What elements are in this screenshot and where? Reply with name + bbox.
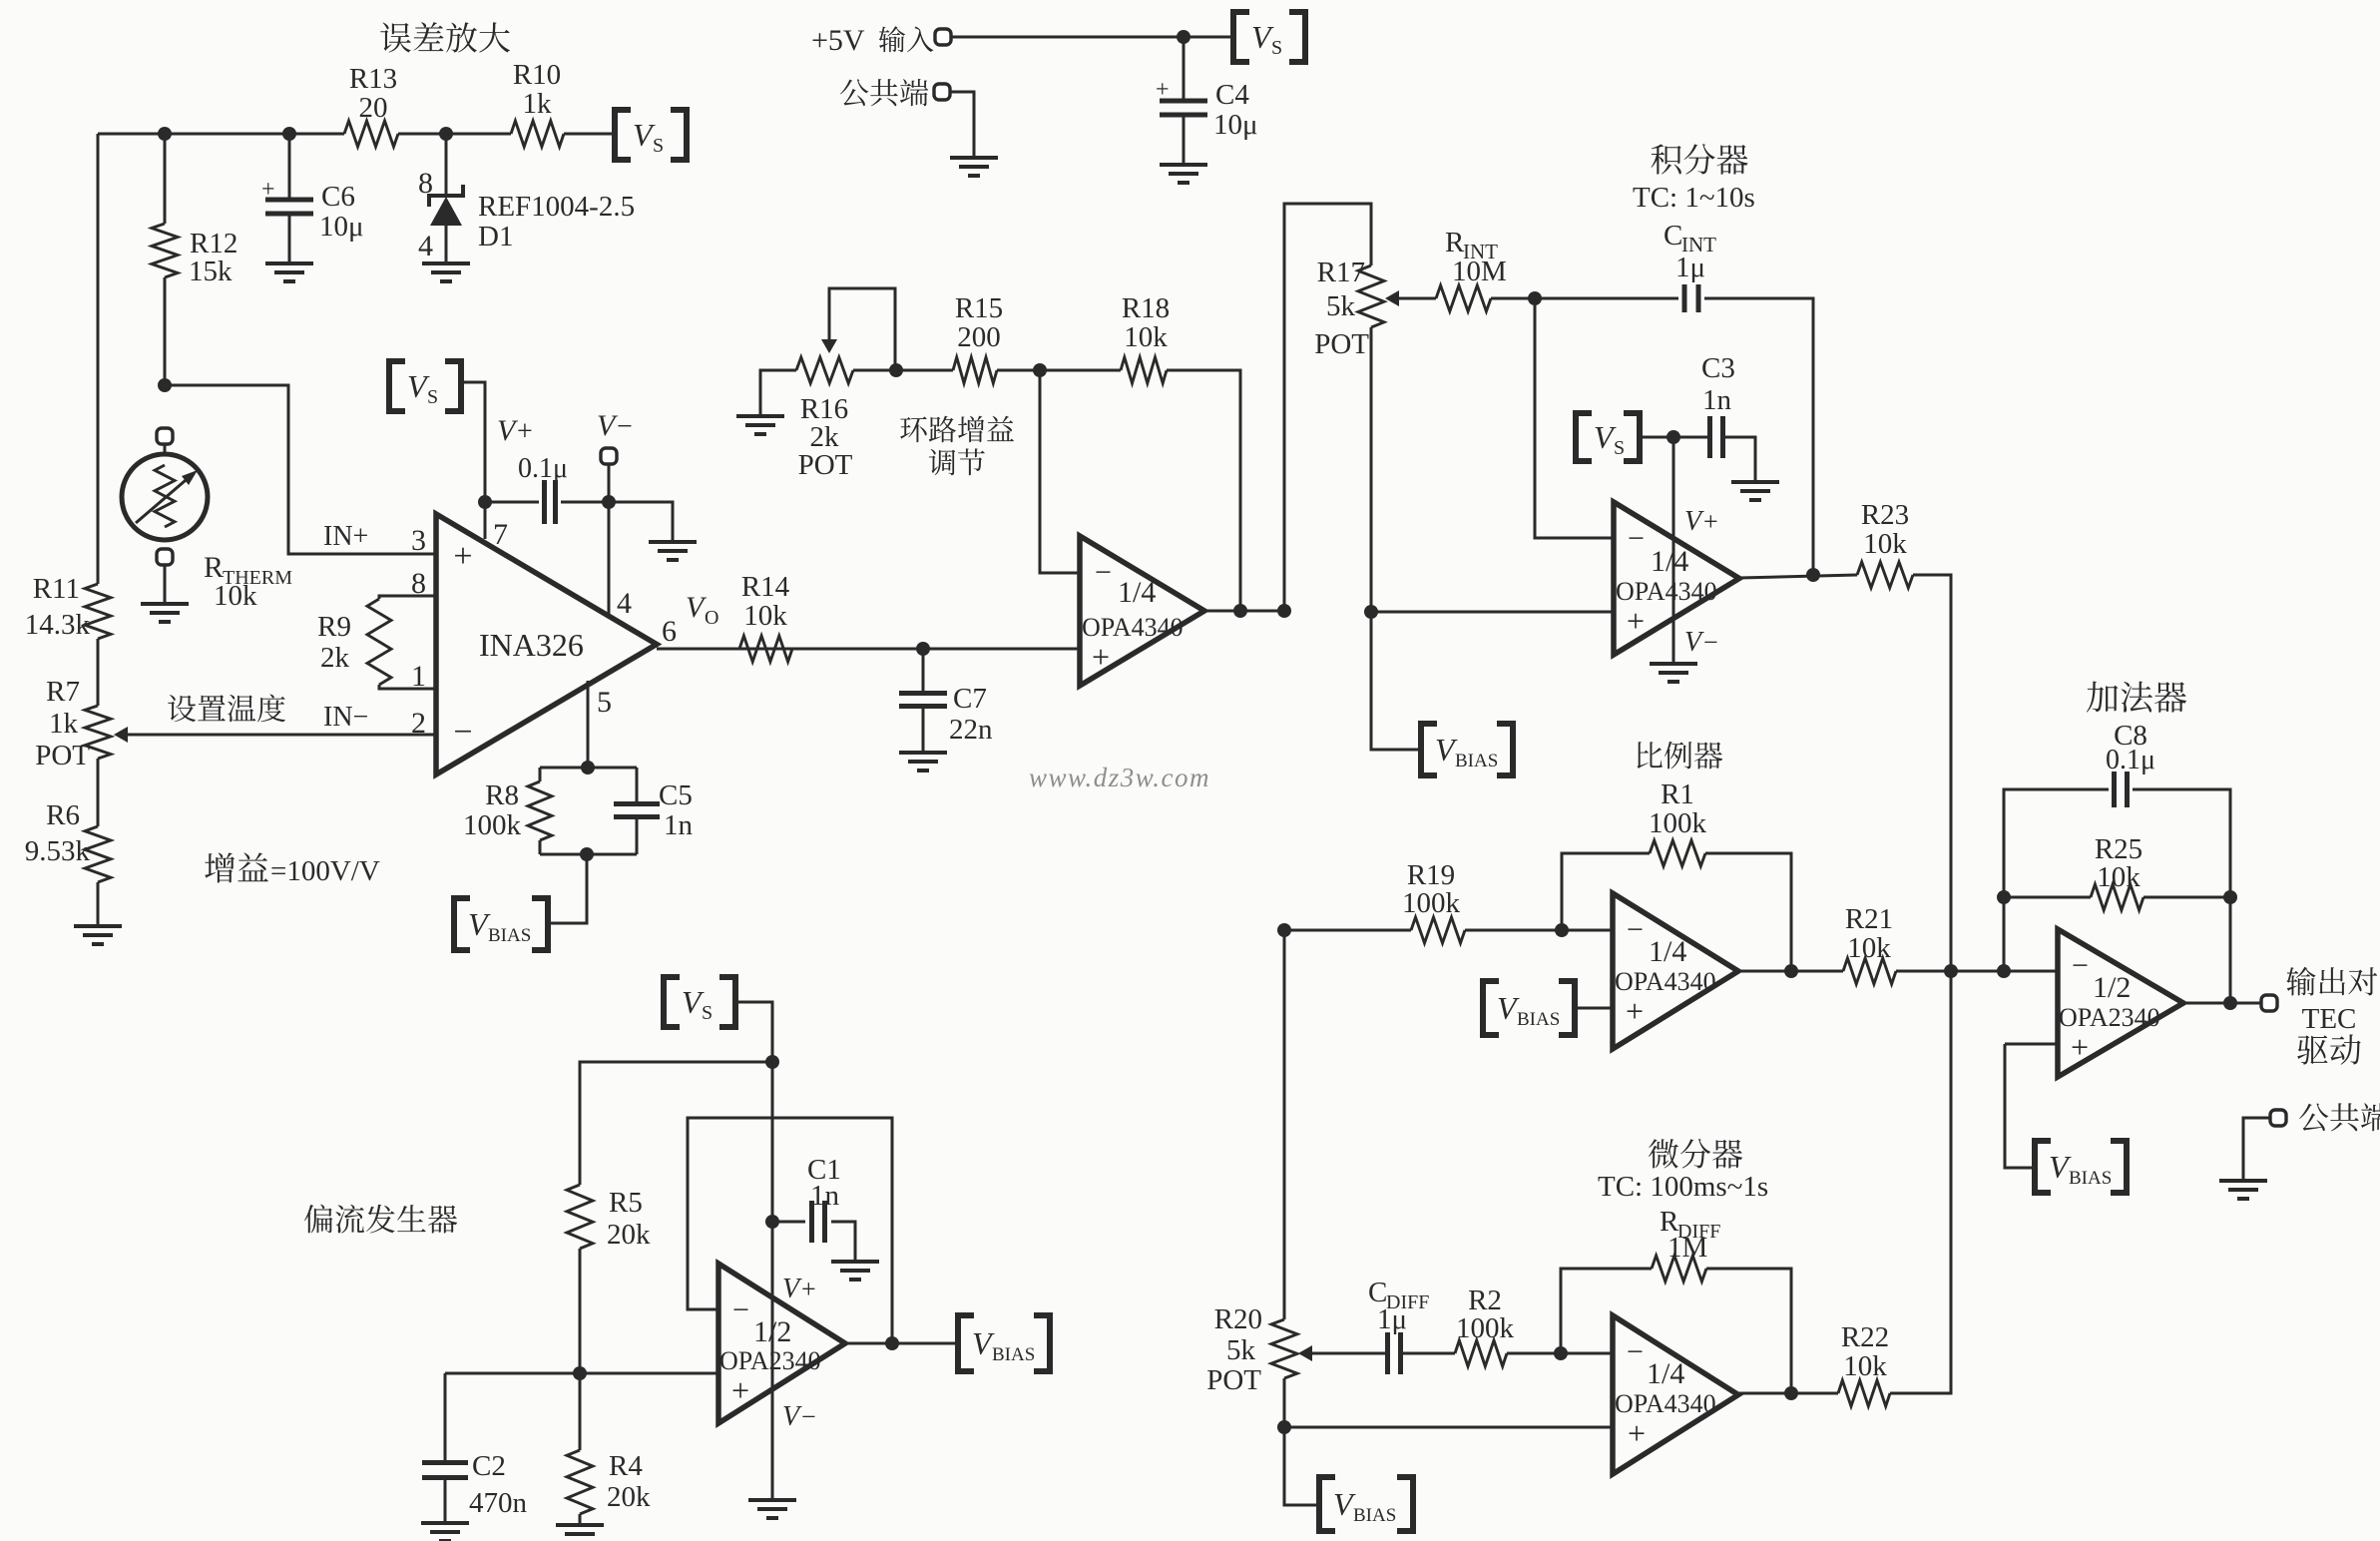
wire C6 to ground (288, 214, 291, 262)
labels U6 (719, 1293, 821, 1408)
junction summing feedback (1997, 964, 2011, 978)
wire R18 to output node (1167, 370, 1240, 611)
label R15 200 (955, 292, 1003, 353)
svg-text:R: R (1445, 227, 1465, 258)
junction CINT/output (1806, 568, 1820, 582)
svg-text:100k: 100k (1402, 887, 1461, 919)
wire C4 to ground (1183, 115, 1186, 164)
wire INA out to opamp (657, 648, 1080, 651)
svg-text:REF1004-2.5: REF1004-2.5 (478, 191, 635, 223)
resistor R12 (152, 224, 178, 277)
svg-text:1/4: 1/4 (1118, 576, 1156, 609)
svg-text:C5: C5 (659, 779, 693, 811)
wire 公共端 to ground (950, 92, 974, 157)
wire IN- pin2 (126, 734, 436, 737)
wire thermistor to ground (164, 565, 167, 603)
junction R15/R18 feedback (1033, 363, 1047, 377)
capacitor C3 (1710, 416, 1723, 458)
ground 公共端 top (950, 158, 998, 176)
svg-text:R23: R23 (1861, 499, 1909, 531)
resistor R13 (344, 121, 398, 147)
svg-text:3: 3 (411, 524, 426, 557)
ground below D1 (422, 263, 470, 281)
label TC 1-10s (1633, 182, 1755, 214)
wire C7 stem (922, 649, 925, 693)
svg-text:R10: R10 (513, 59, 561, 91)
wire RDIFF right side (1706, 1269, 1791, 1393)
label INA326 (479, 627, 584, 663)
ground below C2 (421, 1523, 469, 1541)
label pin 1 (411, 660, 426, 693)
terminal 公共端 top (934, 84, 950, 100)
svg-text:20: 20 (359, 92, 388, 124)
svg-text:100k: 100k (463, 809, 522, 841)
svg-text:+: + (2071, 1029, 2089, 1065)
wire U2 output (1739, 575, 1857, 578)
label + input INA (453, 538, 472, 575)
svg-text:BIAS: BIAS (1517, 1009, 1560, 1030)
junction R2/feedback (1554, 1346, 1568, 1360)
wire R25 row left (2004, 896, 2091, 899)
label 比例器 (proportional) (1638, 742, 1723, 770)
label R16 2k POT (798, 393, 853, 481)
wire to VBIAS (548, 854, 587, 923)
resistor R15 (953, 357, 997, 383)
svg-text:20k: 20k (607, 1219, 651, 1251)
resistor R8 (528, 768, 552, 854)
svg-text:−: − (1627, 913, 1644, 946)
ground C3 (1731, 482, 1779, 500)
wire V+ down through opamp (1672, 437, 1675, 663)
wire U3 output (1738, 970, 1843, 973)
wire plus input (1371, 611, 1614, 614)
svg-text:1k: 1k (49, 708, 79, 740)
label 积分器 (integrator) (1652, 144, 1748, 175)
wire R5 to plus row (579, 1249, 582, 1373)
svg-text:10k: 10k (2097, 861, 2141, 893)
label R9 2k (317, 611, 351, 674)
junction top-rail/R12 (158, 127, 172, 141)
title 误差放大 (error amplifier) (380, 22, 510, 53)
power VS integrator (1576, 413, 1640, 461)
svg-text:OPA4340: OPA4340 (1615, 967, 1716, 996)
label IN+ (323, 521, 368, 552)
wire CDIFF to R2 (1400, 1352, 1455, 1355)
svg-text:V: V (782, 1401, 802, 1432)
svg-text:C3: C3 (1701, 352, 1735, 384)
svg-text:−: − (1703, 628, 1718, 657)
wire C1 left (772, 1221, 805, 1224)
junction summing R23 (1944, 964, 1958, 978)
svg-text:10μ: 10μ (1213, 109, 1258, 141)
svg-text:5k: 5k (1326, 290, 1356, 322)
zener diode D1 REF1004-2.5 (429, 185, 463, 262)
svg-text:0.1μ: 0.1μ (2106, 745, 2155, 775)
junction pin5/R8C5 (581, 761, 595, 774)
svg-text:R8: R8 (485, 779, 519, 811)
wire R16 left to ground (760, 370, 796, 415)
op-amp U3 1/4 OPA4340 proportional (1613, 893, 1738, 1049)
svg-text:10μ: 10μ (319, 211, 364, 243)
resistor R2 (1455, 1340, 1507, 1366)
power VBIAS integrator (1421, 724, 1513, 775)
terminal thermistor top (157, 428, 173, 444)
label pin 7 (493, 518, 508, 551)
wire R2 to inv input (1507, 1352, 1613, 1355)
svg-text:1n: 1n (810, 1180, 840, 1212)
label V- bias opamp (782, 1401, 816, 1432)
svg-text:1/2: 1/2 (2093, 971, 2131, 1004)
resistor R9 (367, 599, 391, 685)
ground below bias opamp (748, 1500, 796, 1518)
label C2 470n (469, 1450, 528, 1519)
capacitor C7 22n (899, 694, 947, 707)
label 公共端 bottom (2299, 1103, 2380, 1131)
terminal thermistor bottom (157, 549, 173, 565)
label 输出对 TEC 驱动 (2286, 967, 2377, 1065)
svg-text:7: 7 (493, 518, 508, 551)
svg-text:R15: R15 (955, 292, 1003, 324)
label R20 5k POT (1206, 1303, 1262, 1396)
svg-text:OPA4340: OPA4340 (1615, 1389, 1716, 1418)
svg-text:−: − (801, 1402, 816, 1431)
svg-text:S: S (1271, 37, 1282, 59)
svg-text:+: + (731, 1372, 749, 1408)
resistor R6 (85, 826, 111, 882)
label pin 8 (411, 567, 426, 600)
wire VS to V+ node (1640, 436, 1673, 439)
capacitor C5 (614, 768, 660, 854)
wire R11 to R7 (97, 639, 100, 706)
svg-text:C: C (1664, 220, 1682, 252)
wire feedback to inverting input (1040, 370, 1080, 573)
wire feedback R1 (1562, 853, 1650, 930)
wire CINT to corner (1704, 298, 1813, 575)
svg-text:−: − (2072, 949, 2089, 982)
capacitor C4 10u (1156, 77, 1207, 115)
label R10 1k (513, 59, 561, 120)
label R23 10k (1861, 499, 1909, 560)
wire D1 stem (445, 134, 448, 196)
label C3 1n (1701, 352, 1735, 416)
svg-text:+: + (1628, 1415, 1646, 1451)
svg-text:R21: R21 (1845, 903, 1893, 935)
svg-text:1μ: 1μ (1675, 252, 1705, 283)
wire 公共端 to ground (2243, 1118, 2270, 1180)
svg-text:200: 200 (957, 321, 1001, 353)
terminal V- (601, 448, 617, 464)
wire R12 branch upper (164, 134, 167, 224)
svg-text:IN−: IN− (323, 702, 368, 733)
resistor RINT 10M (1436, 285, 1491, 311)
power VS INA box (389, 361, 461, 411)
junction C4 top (1177, 30, 1190, 44)
svg-text:1μ: 1μ (1377, 1303, 1407, 1335)
label TC 100ms-1s (1598, 1171, 1768, 1203)
wire R17 down to plus node (1370, 327, 1373, 612)
label pin 2 (411, 707, 426, 740)
svg-text:S: S (1614, 437, 1625, 459)
svg-text:OPA4340: OPA4340 (1616, 577, 1717, 606)
label R21 10k (1845, 903, 1893, 964)
wire R19 to inv input (1465, 929, 1613, 932)
label pin 6 (662, 615, 677, 648)
wire C2 stem (444, 1373, 447, 1463)
wire wiper to RINT (1399, 297, 1436, 300)
ground below C6 (265, 263, 313, 281)
svg-text:+: + (1703, 507, 1718, 536)
svg-text:C6: C6 (321, 181, 355, 213)
svg-text:1/4: 1/4 (1651, 545, 1688, 578)
power VBIAS differentiator (1319, 1477, 1413, 1531)
svg-text:1/4: 1/4 (1647, 1357, 1684, 1390)
wire pin8 stub (379, 596, 436, 599)
label RINT 10M (1445, 227, 1507, 287)
wire plus to VBIAS adder (2005, 1044, 2035, 1168)
capacitor C8 (2115, 771, 2128, 807)
wire C7 to ground (922, 707, 925, 752)
junction R19/feedback (1555, 923, 1569, 937)
svg-text:R5: R5 (609, 1187, 643, 1219)
junction R5/plus row (573, 1366, 587, 1380)
wiper R16 (821, 288, 895, 370)
label R5 20k (607, 1187, 651, 1251)
svg-text:S: S (427, 386, 438, 408)
junction R18 feedback/output (1233, 604, 1247, 618)
svg-text:10k: 10k (743, 600, 787, 632)
label V+ integrator (1684, 506, 1718, 537)
capacitor CDIFF (1388, 1332, 1401, 1374)
wire main bus up + loop top (1284, 204, 1371, 611)
labels U3 (1615, 913, 1716, 1029)
label R12 15k (189, 228, 238, 287)
label R4 20k (607, 1450, 651, 1513)
wire U5 output (2183, 1002, 2261, 1005)
svg-text:BIAS: BIAS (992, 1344, 1035, 1365)
svg-text:−: − (1628, 522, 1645, 555)
label R1 100k (1649, 778, 1707, 839)
svg-text:+: + (261, 177, 275, 203)
wiper arrow R20 (1298, 1345, 1312, 1361)
ground near pin4 (649, 542, 697, 560)
svg-text:10k: 10k (1843, 1350, 1887, 1382)
svg-text:5: 5 (597, 686, 612, 719)
wire R7 to R6 (97, 759, 100, 826)
label pin 3 (411, 524, 426, 557)
resistor R21 (1843, 958, 1896, 984)
svg-text:6: 6 (662, 615, 677, 648)
label C1 1n (807, 1154, 841, 1212)
junction output/main bus (1277, 604, 1291, 618)
wire V- terminal stem (608, 464, 611, 502)
svg-text:+: + (1626, 993, 1644, 1029)
wire bus to VBIAS bottom (1284, 1427, 1319, 1505)
wire U1 output (1204, 610, 1284, 613)
svg-text:R14: R14 (741, 571, 790, 603)
wire R16 to R15 (853, 369, 953, 372)
label VO node (0, 0, 1, 1)
watermark (1029, 763, 1210, 792)
junction RINT/inv input (1528, 291, 1542, 305)
resistor R22 (1838, 1380, 1890, 1406)
junction R1/output (1784, 964, 1798, 978)
label R14 10k (741, 571, 790, 632)
thermistor RTHERM (122, 454, 208, 540)
ground below U2 (1650, 664, 1697, 682)
svg-text:0.1μ: 0.1μ (518, 453, 568, 484)
capacitor CINT (1684, 284, 1698, 312)
svg-text:R6: R6 (46, 799, 80, 831)
label RDIFF 1M (1660, 1206, 1720, 1264)
svg-text:IN+: IN+ (323, 521, 368, 552)
label VO (686, 591, 718, 629)
power VS bias gen (664, 977, 735, 1027)
terminal 公共端 bottom (2270, 1110, 2286, 1126)
svg-text:+: + (801, 1275, 816, 1303)
label C8 0.1u (2106, 720, 2155, 775)
junction R12/IN+ (158, 378, 172, 392)
svg-text:S: S (702, 1002, 713, 1024)
wire R25 row right (2143, 896, 2230, 899)
label - input INA (453, 714, 472, 751)
wire R13 to R10 (398, 133, 511, 136)
wire R1 right side (1705, 853, 1791, 971)
svg-text:22n: 22n (949, 714, 993, 746)
label REF1004-2.5 D1 (478, 191, 635, 253)
label R7 1k POT (35, 676, 90, 771)
wiper arrow into R7 (114, 727, 128, 743)
label R25 10k (2095, 833, 2142, 893)
label R18 10k (1122, 292, 1170, 353)
svg-text:R9: R9 (317, 611, 351, 643)
svg-text:OPA2340: OPA2340 (2059, 1003, 2160, 1032)
svg-text:V: V (782, 1274, 802, 1304)
wire R23 to summing bus (1913, 575, 1951, 971)
wire RINT to CINT (1491, 297, 1678, 300)
label V+ bias opamp (782, 1274, 816, 1304)
svg-text:8: 8 (418, 167, 433, 200)
svg-text:TC: 100ms~1s: TC: 100ms~1s (1598, 1171, 1768, 1203)
svg-text:−: − (453, 714, 472, 751)
power VS top-middle (1233, 12, 1305, 62)
potentiometer R17 (1358, 265, 1384, 327)
label +5V 输入 (811, 24, 933, 57)
svg-text:4: 4 (418, 230, 433, 262)
ground 公共端 bottom (2219, 1181, 2267, 1199)
ground below thermistor (141, 604, 189, 622)
svg-text:BIAS: BIAS (2069, 1168, 2112, 1189)
label R22 10k (1841, 1321, 1889, 1382)
power VS top-left (615, 110, 687, 160)
svg-text:POT: POT (798, 449, 853, 481)
wire R21 to summing node (1896, 970, 2058, 973)
label 偏流发生器 (bias generator) (304, 1205, 457, 1234)
wire plus row (445, 1372, 718, 1375)
svg-text:15k: 15k (189, 256, 233, 287)
svg-text:C2: C2 (472, 1450, 506, 1482)
wire pin5 stub (587, 681, 590, 768)
wire pin1 stub (379, 685, 436, 689)
labels U2 (1616, 522, 1717, 639)
wiper arrow R17 (1385, 290, 1399, 306)
resistor R23 (1857, 562, 1913, 588)
wire inv input down (1535, 298, 1614, 538)
wire bus to R19 (1284, 929, 1411, 932)
wire U4 output (1738, 1392, 1838, 1395)
ground below R4 (556, 1525, 604, 1541)
label V- terminal (597, 409, 633, 442)
wire R8C5 top bar (540, 767, 637, 770)
junction C7 (916, 642, 930, 656)
label R19 100k (1402, 859, 1461, 919)
wire C3 to ground (1723, 437, 1755, 481)
resistor R1 (1650, 840, 1705, 866)
wire R12 to IN+ node (164, 277, 167, 385)
power VBIAS adder (2035, 1141, 2127, 1193)
label V+ pin7 (497, 414, 533, 447)
label R2 100k (1456, 1284, 1515, 1344)
capacitor C1 1n (812, 1201, 825, 1243)
wire left bus down (97, 134, 100, 584)
label pin 4 of D1 (418, 230, 433, 262)
labels U1 (1082, 556, 1184, 675)
label C4 10u (1213, 79, 1258, 141)
ground below C7 (899, 753, 947, 770)
wire C8 right (2133, 789, 2230, 1003)
potentiometer R20 (1271, 1319, 1297, 1378)
junction top-rail/C6 (282, 127, 296, 141)
svg-text:10k: 10k (214, 580, 257, 612)
wire R8C5 bottom bar (540, 853, 637, 856)
svg-text:−: − (1095, 556, 1112, 589)
svg-text:BIAS: BIAS (1455, 751, 1498, 771)
svg-text:5k: 5k (1226, 1334, 1256, 1366)
resistor R19 (1411, 917, 1465, 943)
junction C8/output (2223, 996, 2237, 1010)
svg-text:R1: R1 (1661, 778, 1694, 810)
svg-text:R17: R17 (1317, 257, 1365, 288)
junction R8C5 bottom (580, 847, 594, 861)
svg-text:=100V/V: =100V/V (270, 855, 380, 887)
resistor R4 (567, 1450, 593, 1514)
wire plus input diff (1284, 1426, 1613, 1429)
wire bus to plus input (1283, 1378, 1286, 1427)
wire bus to R20 (1283, 930, 1286, 1319)
svg-text:+: + (1156, 77, 1170, 103)
wire to R5 (580, 1062, 772, 1185)
junction feedback/output bias (885, 1336, 899, 1350)
svg-text:POT: POT (1314, 328, 1369, 360)
capacitor C6 10u (261, 177, 313, 214)
resistor R5 (567, 1185, 593, 1249)
label R17 5k POT (1314, 257, 1369, 360)
svg-text:S: S (653, 135, 664, 157)
wire C2 to ground (444, 1478, 447, 1522)
svg-text:BIAS: BIAS (1353, 1505, 1396, 1526)
terminal +5V (935, 29, 951, 45)
wire cap left (485, 501, 539, 504)
wire R15 to R18 (997, 369, 1121, 372)
op-amp U5 1/2 OPA2340 adder (2058, 929, 2183, 1077)
svg-text:−: − (617, 411, 633, 442)
wire to thermistor (164, 444, 167, 455)
power VBIAS output box (958, 1315, 1050, 1371)
capacitor 0.1u INA supply (545, 480, 556, 524)
wire plus input adder (2005, 1043, 2058, 1046)
svg-text:−: − (1627, 1335, 1644, 1368)
label pin 4 (617, 587, 632, 620)
svg-text:100k: 100k (1456, 1312, 1515, 1344)
